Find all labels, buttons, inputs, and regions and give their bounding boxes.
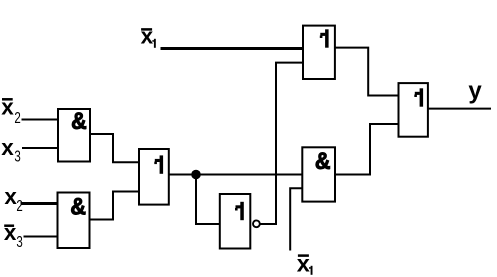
svg-text:x: x — [4, 220, 17, 245]
net label x3 — [1, 135, 21, 165]
wire x3 to U1 — [22, 147, 59, 149]
wire U1 output to U3 input 1 — [90, 134, 139, 162]
svg-text:y: y — [468, 78, 482, 105]
net label x̄1 (top) — [141, 23, 156, 48]
wire x̄1 to U5 input 1 (thick) — [161, 47, 304, 50]
wire node A down to U4 input — [196, 175, 220, 225]
svg-text:&: & — [315, 147, 331, 174]
AND gate U6 (right) — [302, 147, 335, 202]
svg-text:&: & — [70, 193, 86, 220]
wire U3 output to node A and on to U6 input 1 — [169, 174, 302, 176]
AND gate U1 — [58, 107, 90, 161]
wire U4 output up to U5 input 2 — [260, 63, 303, 224]
wire x̄3 to U2 — [24, 236, 59, 238]
wire x̄2 to U1 — [22, 119, 60, 121]
wire x2 to U2 (thick) — [21, 202, 59, 205]
svg-text:&: & — [71, 107, 87, 134]
OR gate U7 (output) — [399, 83, 428, 137]
OR gate U3 (middle) — [139, 149, 169, 205]
node A junction dot — [191, 170, 201, 180]
OR gate U5 (top) — [303, 26, 335, 79]
svg-text:2: 2 — [16, 196, 23, 214]
inverter bubble U4 — [253, 220, 260, 227]
svg-text:3: 3 — [16, 232, 23, 250]
AND gate U2 — [58, 193, 90, 249]
wire U5 output to U7 input 1 — [335, 48, 399, 96]
net label x2 — [4, 184, 23, 214]
wire x̄1 to U6 input 2 — [290, 188, 302, 250]
svg-text:x: x — [1, 135, 14, 160]
wire U7 output y — [428, 108, 491, 110]
svg-text:3: 3 — [14, 147, 21, 165]
net label x̄1 (bottom) — [297, 251, 313, 277]
svg-text:x: x — [141, 23, 154, 48]
svg-text:x: x — [297, 251, 310, 277]
wire U2 output to U3 input 2 — [90, 192, 140, 220]
svg-text:x: x — [1, 94, 14, 119]
wire U6 output to U7 input 2 — [335, 124, 399, 175]
svg-text:x: x — [4, 184, 17, 209]
net label x̄2 — [1, 94, 21, 126]
svg-text:2: 2 — [14, 108, 21, 126]
NOT gate U4 — [220, 194, 251, 249]
net label x̄3 — [4, 220, 23, 250]
